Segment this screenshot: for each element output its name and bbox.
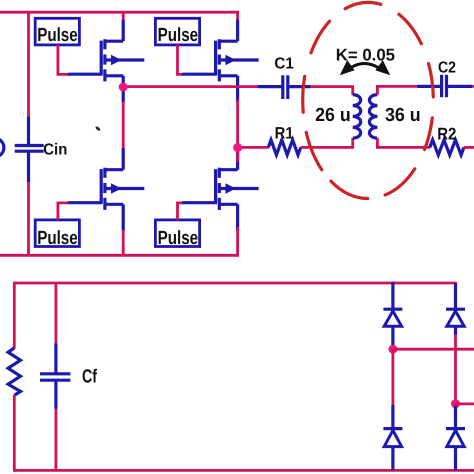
junction: D1-D3 node — [388, 345, 397, 354]
wire: Cf branch upper — [55, 283, 58, 344]
diode D3 — [383, 405, 402, 470]
wire: M1 drain stub — [122, 11, 125, 20]
resistor R1 — [268, 140, 300, 155]
svg-text:Pulse: Pulse — [158, 228, 199, 249]
pulse source box 1 (top-left) — [35, 18, 79, 46]
pulse source box 2 (top-right) — [155, 18, 199, 46]
wire: D2 to D2-D4 node — [454, 335, 457, 405]
voltage source V1 (clipped at left edge) — [0, 138, 4, 157]
svg-text:Cf: Cf — [82, 366, 97, 387]
wire: R2 to right edge — [464, 146, 474, 149]
wire: left branch lower — [13, 395, 16, 472]
wire: D1-D3 node down to D3 — [391, 349, 394, 405]
transistor M4 (bottom-right NMOS) — [182, 148, 259, 231]
wire: node A horizontal to C1 — [123, 85, 258, 88]
junction node B — [233, 143, 242, 152]
svg-text:Pulse: Pulse — [37, 228, 77, 249]
wire: pulse1 to M1 gate — [58, 45, 69, 75]
pulse source box 4 (bottom-right) — [155, 220, 199, 249]
svg-text:K= 0.05: K= 0.05 — [336, 45, 395, 64]
junction node A — [119, 83, 128, 92]
wire: R1 to primary coil bottom — [301, 138, 353, 147]
diode D4 — [446, 406, 465, 470]
wire: bottom return rail of inverter — [0, 254, 239, 257]
wire: secondary coil bottom to R2 — [377, 138, 430, 147]
coupling arrow (double-headed arc) — [340, 60, 390, 75]
svg-text:36 u: 36 u — [385, 105, 421, 126]
wire: C1 to primary coil top — [311, 87, 353, 95]
svg-text:Pulse: Pulse — [158, 25, 199, 46]
svg-text:Pulse: Pulse — [37, 25, 77, 46]
svg-text:R2: R2 — [437, 124, 456, 143]
transistor M2 (top-right NMOS) — [182, 19, 259, 102]
wire: M3 source stub to bottom rail — [122, 230, 125, 257]
wire: left branch upper — [13, 282, 16, 349]
capacitor C1 — [258, 75, 311, 99]
wire: lower circuit top rail — [14, 282, 457, 285]
wire: pulse3 to M3 gate — [58, 203, 69, 221]
wire: top supply rail — [0, 11, 239, 14]
inductor L2 secondary 36u — [369, 95, 377, 139]
wire: node A vertical (M1 source to M3 drain) — [122, 102, 125, 149]
coupling ellipse (dashed) — [303, 2, 434, 198]
wire: D2-D4 node down to D4 — [454, 404, 457, 407]
wire: left rail upper segment — [27, 11, 30, 117]
capacitor Cf — [40, 344, 70, 409]
diode D2 — [446, 283, 465, 335]
wire: Cf branch lower — [55, 409, 58, 471]
wire: D2-D4 node to right edge — [456, 402, 474, 405]
diode D1 — [383, 282, 402, 345]
wire: left rail lower segment — [27, 182, 30, 257]
svg-text:R1: R1 — [275, 124, 294, 142]
wire: M2 drain stub — [236, 11, 239, 20]
wire: node B horizontal to R1 — [238, 146, 269, 149]
svg-text:C2: C2 — [438, 60, 456, 77]
wire: M4 source stub to bottom rail — [236, 227, 239, 256]
wire: D1-D3 node to right edge — [393, 348, 474, 351]
stray ink mark — [95, 126, 101, 132]
transistor M1 (top-left NMOS) — [68, 19, 145, 102]
resistor RL (left vertical) — [8, 348, 20, 395]
wire: C2 to right edge — [472, 85, 474, 88]
pulse source box 3 (bottom-left) — [35, 220, 79, 249]
wire: lower circuit bottom rail — [14, 469, 474, 472]
wire: pulse2 to M2 gate — [178, 45, 184, 75]
transistor M3 (bottom-left NMOS) — [68, 148, 145, 231]
svg-text:Cin: Cin — [43, 142, 67, 159]
junction: D2-D4 node — [451, 399, 460, 408]
capacitor C2 — [418, 75, 473, 97]
svg-text:C1: C1 — [274, 56, 293, 73]
resistor R2 — [430, 140, 464, 155]
inductor L1 primary 26u — [353, 95, 361, 139]
svg-text:26 u: 26 u — [315, 105, 351, 126]
capacitor Cin — [15, 117, 44, 183]
wire: node B vertical (M2 source to M4 drain) — [236, 100, 239, 162]
wire: pulse4 to M4 gate — [178, 203, 184, 221]
wire: secondary coil top to C2 — [377, 86, 417, 94]
